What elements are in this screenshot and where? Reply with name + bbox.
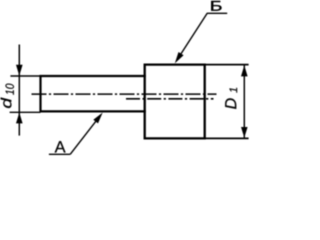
D1 top arrowhead (points up)	[241, 65, 248, 76]
d10 dimension text (rotated), glyph paths of "d" with subscript "10"	[1, 84, 14, 108]
extension of bottom edge to D1 dimension	[205, 137, 249, 139]
d10 dimension: bottom extension line	[10, 111, 41, 113]
leader B arrowhead (points down-left to top of cylinder)	[175, 52, 184, 63]
label B text (Cyrillic Be) as glyph path	[211, 1, 221, 11]
D1 dimension line	[243, 65, 245, 139]
extension of top edge to D1 dimension	[205, 64, 249, 66]
d10 top arrowhead (points down at top extension)	[16, 65, 23, 76]
leader for surface A: slanted line	[70, 115, 100, 154]
D1 bottom arrowhead (points down)	[241, 127, 248, 138]
leader for surface B: shelf	[207, 12, 227, 14]
lower center line (axis of large cylinder)	[126, 98, 214, 100]
leader for surface B: slanted line	[177, 13, 208, 60]
D1 dimension text (rotated), glyph paths of "D" with subscript "1"	[225, 88, 237, 109]
label A text (Cyrillic A) as glyph path	[55, 141, 66, 152]
d10 dimension: top extension line	[10, 75, 40, 77]
d10 bottom arrowhead (points up at bottom extension)	[16, 113, 23, 124]
leader for surface A: shelf	[49, 153, 70, 155]
leader A arrowhead (points up-right to bottom of shaft)	[93, 113, 102, 124]
upper center line (axis of small shaft)	[32, 93, 217, 95]
d10 dimension line	[18, 45, 20, 136]
small shaft body (surface A)	[39, 75, 145, 113]
large cylinder body (surface B)	[144, 63, 206, 139]
